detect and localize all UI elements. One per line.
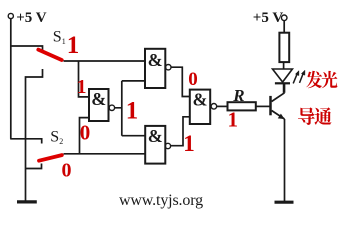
wire S2 pole to U3 — [64, 153, 146, 155]
wire R2 to LED — [283, 62, 285, 69]
ground right — [275, 201, 294, 204]
ground left — [17, 200, 37, 203]
svg-text:+5 V: +5 V — [16, 10, 47, 26]
wire S2 upper contact arm — [10, 139, 42, 144]
wire U4 output to R — [217, 105, 228, 107]
LED emission arrows — [293, 70, 305, 83]
svg-text:&: & — [148, 50, 163, 70]
terminal +5V left — [8, 13, 13, 18]
wire U2 output net — [115, 81, 146, 136]
wire U3 output to U4 — [171, 117, 190, 146]
svg-text:1: 1 — [183, 131, 195, 156]
wire left rail — [10, 18, 12, 138]
label dao-tong (conducting) — [298, 107, 332, 125]
wire S1 upper contact arm — [10, 46, 42, 51]
svg-text:R: R — [232, 86, 244, 105]
terminal +5V right — [281, 15, 287, 21]
svg-text:&: & — [91, 89, 106, 109]
wire R to transistor base — [256, 105, 270, 107]
svg-text:&: & — [148, 126, 163, 146]
wire terminal to R2 — [283, 21, 285, 33]
wire S1 lower contact arm — [26, 69, 43, 201]
nand gate U1 — [145, 49, 171, 88]
switch S2 blade — [39, 155, 62, 161]
svg-text:1: 1 — [228, 108, 239, 132]
svg-text:S1: S1 — [53, 29, 66, 47]
LED D1 — [273, 69, 293, 93]
svg-text:0: 0 — [80, 121, 91, 145]
svg-text:1: 1 — [77, 76, 87, 98]
svg-text:S2: S2 — [50, 128, 63, 146]
resistor R1 — [228, 102, 256, 110]
label fa-guang (glowing) — [306, 71, 337, 88]
svg-text:1: 1 — [126, 98, 139, 125]
svg-text:www.tyjs.org: www.tyjs.org — [119, 192, 203, 209]
nand gate U4 — [190, 90, 217, 124]
nand gate U3 — [145, 126, 170, 164]
wire U2 bottom input — [80, 118, 90, 154]
svg-text:1: 1 — [67, 32, 80, 59]
wire S2 lower contact arm — [26, 164, 42, 169]
wire U1 output to U4 — [171, 67, 190, 96]
svg-text:+5 V: +5 V — [253, 10, 284, 26]
resistor R2 vertical — [279, 33, 289, 62]
switch S1 blade — [38, 50, 61, 60]
wire S1 pole to gates — [64, 60, 146, 62]
svg-text:0: 0 — [62, 160, 72, 182]
svg-text:&: & — [193, 89, 208, 109]
svg-text:0: 0 — [188, 69, 198, 90]
nand gate U2 — [89, 89, 115, 121]
transistor Q1 — [271, 83, 285, 201]
wire junction to U2 top input — [79, 61, 90, 97]
